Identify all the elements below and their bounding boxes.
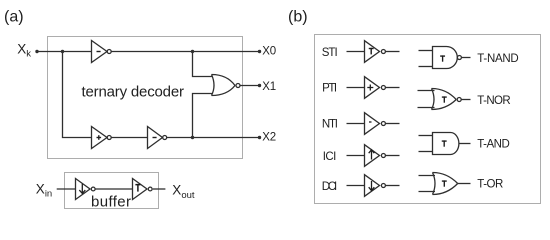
svg-text:(b): (b) xyxy=(288,9,308,26)
svg-text:T-OR: T-OR xyxy=(477,179,503,191)
svg-text:X1: X1 xyxy=(262,81,276,93)
svg-text:Xin: Xin xyxy=(36,182,52,200)
svg-text:ternary decoder: ternary decoder xyxy=(82,84,185,101)
svg-text:PTI: PTI xyxy=(322,83,337,95)
svg-text:ICI: ICI xyxy=(323,151,337,163)
svg-text:T-NOR: T-NOR xyxy=(477,95,510,107)
svg-text:X2: X2 xyxy=(262,131,276,143)
svg-text:Xout: Xout xyxy=(172,182,195,201)
svg-text:(a): (a) xyxy=(4,9,24,26)
svg-text:T-NAND: T-NAND xyxy=(477,53,518,65)
svg-text:X0: X0 xyxy=(262,46,276,58)
svg-text:NTI: NTI xyxy=(322,119,338,131)
svg-text:T-AND: T-AND xyxy=(477,139,510,151)
svg-text:DCI: DCI xyxy=(322,181,338,193)
svg-text:Xk: Xk xyxy=(17,42,31,60)
svg-text:buffer: buffer xyxy=(91,194,131,211)
svg-text:STI: STI xyxy=(322,47,338,59)
